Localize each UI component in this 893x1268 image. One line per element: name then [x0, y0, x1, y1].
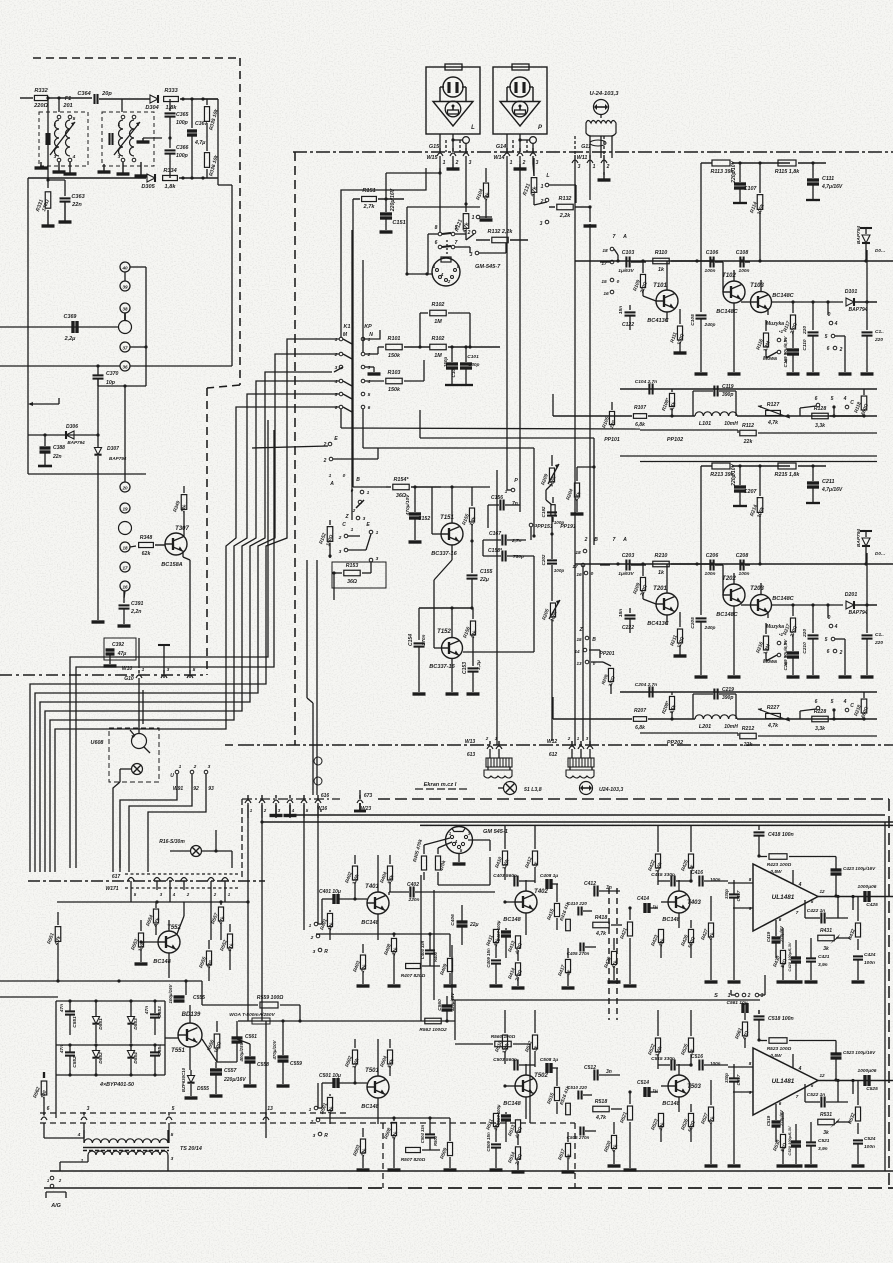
svg-text:R227: R227 — [767, 705, 781, 711]
svg-text:2,2n: 2,2n — [130, 609, 141, 615]
capacitor C204 — [635, 682, 657, 698]
transistor T202 — [716, 565, 745, 677]
svg-text:2: 2 — [455, 160, 459, 166]
svg-text:3: 3 — [208, 764, 211, 770]
svg-text:UL1481: UL1481 — [772, 1078, 795, 1085]
wire — [44, 1123, 169, 1143]
wire — [98, 384, 146, 482]
resistor R131 — [522, 158, 539, 205]
resistor R118 — [853, 389, 870, 416]
svg-text:BZP630C10: BZP630C10 — [181, 1067, 186, 1092]
wire — [640, 461, 877, 463]
contact L1 — [541, 173, 576, 203]
svg-text:R110: R110 — [655, 250, 668, 256]
capacitor C517 — [724, 1064, 741, 1166]
svg-text:2: 2 — [310, 935, 314, 941]
wire — [92, 379, 105, 622]
wire — [248, 1020, 455, 1022]
resistor R430 — [772, 928, 789, 982]
svg-text:C414: C414 — [637, 896, 649, 902]
label F1 — [62, 96, 72, 109]
svg-text:3: 3 — [313, 949, 316, 955]
resistor R515 — [546, 1068, 559, 1114]
capacitor C207 — [731, 464, 757, 506]
svg-text:5: 5 — [193, 667, 196, 673]
svg-text:6,8k: 6,8k — [635, 725, 645, 731]
svg-text:W13: W13 — [465, 739, 476, 745]
svg-text:2: 2 — [136, 122, 140, 128]
svg-text:1000μ06: 1000μ06 — [858, 884, 877, 890]
svg-text:4: 4 — [367, 379, 371, 385]
capacitor C501 — [319, 1073, 367, 1088]
svg-text:4: 4 — [334, 379, 338, 385]
svg-text:P: P — [514, 478, 518, 484]
ground — [98, 162, 148, 176]
svg-text:PP191: PP191 — [560, 524, 576, 530]
capacitor C152 — [405, 487, 430, 542]
svg-text:3,9n: 3,9n — [818, 962, 828, 968]
wire — [330, 556, 334, 600]
resistor R511 — [485, 1086, 501, 1142]
svg-text:C204 2,7n: C204 2,7n — [635, 682, 657, 688]
capacitor C415 — [651, 872, 692, 887]
svg-text:7: 7 — [455, 240, 458, 246]
transistor T101 — [643, 261, 678, 324]
svg-text:3: 3 — [761, 993, 764, 999]
wire — [386, 168, 442, 199]
capacitor C192 — [541, 506, 564, 536]
contact 3c — [339, 534, 371, 555]
capacitor C507 — [496, 1104, 511, 1142]
wire — [318, 899, 322, 924]
resistor R520 — [603, 1122, 620, 1166]
svg-text:D0…: D0… — [875, 248, 885, 253]
contacts 6 5 4 C — [800, 396, 854, 416]
transistor T402 — [503, 880, 548, 935]
svg-text:4: 4 — [798, 882, 802, 888]
wire — [458, 854, 460, 860]
resistor R409b — [439, 934, 456, 986]
svg-text:R154*: R154* — [394, 477, 410, 483]
svg-text:1: 1 — [118, 122, 121, 128]
svg-text:10p: 10p — [106, 380, 115, 386]
svg-text:2: 2 — [567, 736, 571, 741]
svg-text:5: 5 — [831, 699, 834, 705]
capacitor C122 — [618, 305, 636, 330]
svg-text:220μ/16V: 220μ/16V — [390, 188, 396, 212]
svg-text:C363: C363 — [71, 194, 85, 200]
wire — [875, 1077, 877, 1090]
wire — [340, 230, 342, 337]
svg-text:3: 3 — [368, 365, 371, 371]
wire — [405, 207, 480, 276]
svg-text:1: 1 — [541, 184, 544, 190]
svg-text:47n: 47n — [144, 1006, 150, 1015]
contacts 8 5 6 7 — [428, 225, 470, 274]
capacitor C418 — [754, 826, 837, 858]
svg-text:C155: C155 — [480, 569, 493, 575]
wire — [363, 381, 378, 394]
svg-text:R523 100Ω: R523 100Ω — [767, 1046, 792, 1052]
capacitor C155 — [467, 541, 493, 610]
resistor R405label — [412, 838, 424, 863]
ground — [270, 805, 283, 816]
wire — [553, 697, 877, 721]
switch K1/KP labels — [343, 324, 373, 338]
connector pin bottom — [81, 1106, 90, 1138]
svg-text:R333: R333 — [164, 88, 178, 94]
svg-text:220: 220 — [802, 629, 808, 638]
svg-text:3,3k: 3,3k — [815, 726, 826, 732]
svg-text:C151: C151 — [392, 220, 405, 226]
svg-text:C1..: C1.. — [875, 329, 884, 335]
wire bus — [455, 240, 466, 247]
svg-text:GM-545-7: GM-545-7 — [475, 264, 501, 270]
svg-text:W11: W11 — [577, 155, 588, 161]
svg-text:2: 2 — [447, 279, 451, 284]
resistor R101 — [365, 336, 430, 359]
svg-text:2: 2 — [323, 442, 327, 448]
svg-text:S: S — [714, 993, 718, 999]
wire — [758, 1164, 760, 1170]
svg-text:R: R — [324, 1133, 328, 1139]
svg-text:4: 4 — [834, 624, 838, 630]
svg-text:GM 545-1: GM 545-1 — [483, 829, 508, 835]
wire — [575, 562, 893, 565]
svg-text:D306: D306 — [66, 424, 78, 430]
svg-text:C517: C517 — [736, 1074, 741, 1085]
wire — [317, 805, 319, 924]
svg-text:Ekran m.cz I: Ekran m.cz I — [424, 782, 457, 788]
svg-text:470μ/10V: 470μ/10V — [405, 494, 411, 517]
svg-text:6,8k: 6,8k — [635, 422, 645, 428]
tube U101 GM-545-7 — [432, 257, 501, 286]
svg-text:T402: T402 — [534, 889, 548, 895]
svg-text:612: 612 — [549, 752, 558, 758]
svg-text:R560 100Ω: R560 100Ω — [491, 1034, 516, 1040]
svg-text:10mH: 10mH — [724, 724, 738, 730]
connector pin — [208, 878, 217, 898]
svg-text:G11: G11 — [581, 144, 591, 150]
svg-text:1: 1 — [54, 122, 57, 128]
svg-text:R562 100Ω2: R562 100Ω2 — [419, 1027, 447, 1033]
resistor R427c — [0, 0, 1, 1]
svg-text:40: 40 — [121, 266, 128, 271]
capacitor C517b — [733, 1078, 735, 1081]
svg-text:C510 220: C510 220 — [567, 1085, 587, 1090]
svg-text:100μ/16V: 100μ/16V — [168, 983, 173, 1003]
svg-text:0: 0 — [343, 473, 346, 479]
capacitor C553 — [144, 1001, 163, 1035]
svg-text:330p: 330p — [724, 889, 729, 899]
svg-text:C407 100μ: C407 100μ — [496, 920, 501, 941]
transistor T201 — [643, 564, 678, 627]
svg-text:8: 8 — [749, 877, 752, 882]
diode BAP794 — [856, 226, 885, 261]
bottom dashed rail — [348, 1187, 893, 1189]
svg-text:2,2k: 2,2k — [559, 213, 571, 219]
svg-text:3: 3 — [339, 549, 342, 555]
filter can F1 left — [39, 112, 88, 166]
resistor R530 — [772, 1112, 789, 1166]
svg-text:220μ/10V: 220μ/10V — [731, 161, 737, 184]
connector W15 — [426, 140, 471, 169]
svg-text:2,2μ: 2,2μ — [476, 660, 482, 671]
capacitor C367 — [187, 97, 209, 179]
contact circle 16 — [120, 581, 130, 598]
svg-text:3: 3 — [469, 160, 472, 166]
ground — [42, 202, 72, 226]
svg-text:22k: 22k — [743, 439, 754, 445]
transistor T203 — [741, 583, 840, 618]
svg-text:TS 20/14: TS 20/14 — [180, 1146, 202, 1152]
svg-text:T307: T307 — [175, 526, 189, 532]
wire bus — [55, 407, 339, 872]
wire — [768, 603, 843, 612]
svg-text:100n: 100n — [864, 1144, 875, 1150]
svg-text:R107: R107 — [634, 405, 646, 411]
svg-text:C158*: C158* — [488, 548, 503, 554]
svg-text:R: R — [324, 949, 328, 955]
svg-text:5: 5 — [73, 116, 76, 122]
svg-text:R332: R332 — [34, 88, 48, 94]
svg-text:8: 8 — [749, 1061, 752, 1066]
svg-text:T103: T103 — [750, 283, 764, 289]
svg-text:D0…: D0… — [875, 551, 885, 556]
resistor R218 — [853, 692, 870, 719]
capacitor C211 — [806, 466, 843, 503]
svg-text:240p: 240p — [704, 625, 716, 631]
wire — [660, 1164, 662, 1170]
transformer W13 — [465, 736, 512, 778]
svg-text:1,8k: 1,8k — [166, 105, 178, 111]
switch contact row 1 — [335, 337, 371, 343]
capacitor C502 — [0, 0, 1, 1]
svg-text:51 L3,8: 51 L3,8 — [524, 787, 542, 793]
svg-text:C558: C558 — [257, 1062, 269, 1068]
svg-text:6: 6 — [815, 699, 818, 705]
resistor R416 — [559, 901, 571, 931]
resistor R128 — [812, 406, 866, 429]
svg-text:2: 2 — [485, 736, 489, 741]
diode D555 — [181, 1067, 209, 1098]
svg-text:R102: R102 — [432, 302, 445, 308]
resistor R217 — [782, 605, 799, 651]
svg-text:22μ: 22μ — [479, 577, 490, 583]
capacitor C409 — [486, 948, 503, 986]
resistor R210 — [653, 553, 712, 576]
svg-text:R531: R531 — [820, 1112, 832, 1118]
svg-text:R407 820Ω: R407 820Ω — [401, 973, 426, 979]
svg-text:390p: 390p — [722, 695, 733, 701]
svg-text:D201: D201 — [845, 592, 858, 598]
resistor R104 — [475, 168, 492, 220]
contact E2 — [252, 436, 338, 448]
lamp RT6-S/30m — [159, 839, 232, 857]
resistor R411 — [485, 902, 501, 958]
svg-text:D554: D554 — [133, 1052, 139, 1064]
svg-text:201: 201 — [62, 103, 72, 109]
svg-text:C522 1n: C522 1n — [807, 1092, 825, 1098]
svg-text:3,3k: 3,3k — [815, 423, 826, 429]
ground — [35, 162, 77, 174]
resistor R349 — [172, 486, 188, 533]
svg-text:C210: C210 — [802, 642, 808, 654]
svg-text:R215 1,8k: R215 1,8k — [775, 472, 801, 478]
svg-text:1: 1 — [81, 1158, 84, 1164]
svg-text:5: 5 — [811, 1083, 814, 1088]
svg-text:C559: C559 — [290, 1061, 302, 1067]
svg-text:C424: C424 — [864, 952, 876, 958]
resistor R410 — [494, 826, 511, 880]
resistor R415 — [546, 884, 559, 930]
capacitor C153 — [462, 645, 482, 694]
svg-text:390p: 390p — [722, 392, 733, 398]
switch contact row 2 — [334, 352, 371, 358]
capacitor C202b — [541, 534, 564, 601]
svg-text:B: B — [356, 477, 360, 483]
svg-text:C561 10μ: C561 10μ — [726, 1000, 747, 1006]
wire bus — [76, 430, 274, 868]
svg-text:2: 2 — [522, 160, 526, 166]
svg-text:22μ: 22μ — [469, 922, 479, 928]
resistor R531 — [818, 1112, 850, 1136]
svg-text:C410 220: C410 220 — [567, 901, 587, 906]
transformer core — [83, 1148, 169, 1151]
resistor R336 — [204, 123, 219, 178]
svg-text:C521: C521 — [818, 1138, 830, 1144]
svg-text:1M: 1M — [434, 319, 442, 325]
capacitor C219 — [693, 687, 736, 719]
svg-text:673: 673 — [364, 793, 373, 799]
svg-text:C509 15n: C509 15n — [486, 1132, 491, 1152]
svg-text:R228: R228 — [814, 709, 827, 715]
resistor R108 — [661, 389, 678, 418]
svg-text:220: 220 — [874, 337, 883, 343]
switch contact row 3 — [335, 365, 371, 371]
capacitor C406 — [450, 905, 479, 945]
capacitor C504b — [420, 1118, 438, 1150]
diode D305 — [141, 174, 155, 190]
tape head L — [426, 64, 480, 152]
svg-text:1: 1 — [367, 490, 370, 496]
svg-text:C208: C208 — [736, 553, 749, 559]
svg-text:2: 2 — [263, 808, 267, 813]
capacitor C524 — [852, 1136, 876, 1166]
svg-text:C420 100μ/6,3V: C420 100μ/6,3V — [787, 942, 792, 971]
ground — [380, 230, 393, 233]
svg-text:C107: C107 — [744, 186, 758, 192]
svg-text:R132: R132 — [559, 196, 572, 202]
capacitor C417b — [733, 894, 735, 897]
label PP102 — [667, 437, 683, 443]
lamp 51 L3,8 — [498, 782, 542, 795]
contacts 6 5 4 C — [800, 699, 854, 719]
capacitor C422 — [805, 900, 848, 924]
svg-text:20p: 20p — [101, 91, 112, 97]
svg-text:92: 92 — [193, 786, 199, 792]
svg-text:R101: R101 — [388, 336, 401, 342]
svg-text:2: 2 — [352, 508, 356, 514]
svg-text:10mH: 10mH — [724, 421, 738, 427]
wire — [316, 932, 450, 935]
motor symbol U24-103,3 — [580, 782, 624, 795]
svg-text:C553: C553 — [157, 1006, 163, 1018]
svg-text:220: 220 — [874, 640, 883, 646]
svg-text:750p: 750p — [513, 554, 524, 560]
svg-text:R507 820Ω: R507 820Ω — [401, 1157, 426, 1163]
capacitor C109 — [783, 336, 800, 374]
svg-text:C561: C561 — [245, 1034, 257, 1040]
wire bus — [35, 354, 339, 872]
svg-text:1: 1 — [309, 1107, 312, 1113]
resistor R155 — [441, 487, 490, 543]
resistor R214 — [749, 466, 766, 566]
tube GM545-1 — [446, 827, 508, 865]
svg-text:C421: C421 — [818, 954, 830, 960]
svg-text:L: L — [546, 173, 549, 179]
svg-text:2,7n: 2,7n — [511, 538, 522, 544]
resistor R102 — [430, 336, 500, 359]
resistor R403 — [352, 944, 369, 986]
svg-text:A: A — [622, 537, 627, 543]
wire — [142, 690, 144, 724]
resistor R122 — [476, 229, 528, 243]
svg-text:1: 1 — [728, 993, 731, 999]
svg-text:B: B — [594, 537, 598, 543]
resistor R510 — [494, 1010, 511, 1064]
wire — [334, 339, 352, 412]
wire — [810, 1164, 812, 1170]
svg-text:47μ: 47μ — [117, 651, 127, 657]
capacitor C119 — [693, 384, 736, 416]
svg-text:3k: 3k — [823, 1130, 829, 1136]
dashed screen mid — [294, 152, 296, 745]
svg-text:R132 2,2k: R132 2,2k — [488, 229, 514, 235]
svg-text:1,8k: 1,8k — [165, 184, 177, 190]
resistor R431 — [818, 928, 850, 952]
svg-text:36Ω: 36Ω — [347, 579, 357, 585]
svg-text:Muzyka: Muzyka — [766, 321, 784, 327]
svg-text:BAP794: BAP794 — [849, 307, 868, 313]
svg-text:220n: 220n — [408, 897, 420, 903]
wire bus — [30, 339, 339, 872]
svg-text:C219: C219 — [722, 687, 734, 693]
svg-text:BAP794: BAP794 — [109, 456, 127, 461]
svg-text:C109 10μ/6,3V: C109 10μ/6,3V — [783, 336, 788, 368]
svg-text:R103: R103 — [388, 370, 401, 376]
svg-text:100n: 100n — [739, 571, 750, 577]
transistor T551 BD139 — [171, 1005, 202, 1070]
wire — [27, 178, 29, 474]
resistor R216 — [755, 623, 772, 656]
connector pin W16 — [245, 795, 253, 818]
svg-text:2: 2 — [839, 650, 843, 656]
capacitor C516 — [689, 1054, 728, 1071]
capacitor C158 — [483, 534, 536, 561]
svg-text:BC148: BC148 — [503, 1101, 521, 1107]
op-amp UL1481 (II) — [728, 1048, 893, 1115]
connector pin — [167, 878, 176, 898]
svg-text:100n: 100n — [739, 268, 750, 274]
svg-text:4: 4 — [77, 1132, 81, 1138]
contact circle 40 — [120, 262, 146, 385]
wire bus — [432, 260, 434, 274]
capacitor C412 — [558, 881, 620, 897]
capacitor C108 — [736, 250, 750, 274]
transistor T307 — [161, 526, 189, 568]
svg-text:3: 3 — [313, 1133, 316, 1139]
